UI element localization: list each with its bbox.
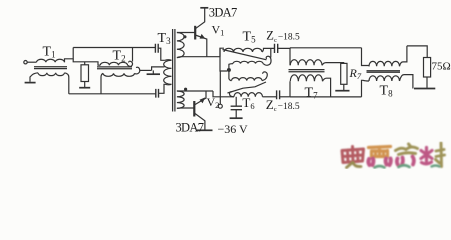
R1 bottom lead bbox=[84, 82, 86, 88]
wire C4 to T7 bottom bbox=[280, 96, 290, 98]
T8 secondary right wire bbox=[400, 75, 413, 89]
svg-text:3DA7: 3DA7 bbox=[176, 121, 204, 135]
ground lead at node bbox=[152, 70, 154, 73]
top rail left bbox=[73, 47, 155, 49]
V1 emitter bbox=[195, 35, 207, 57]
wire T2 sec right to node bbox=[140, 69, 152, 71]
wire T6 to C4 bbox=[263, 96, 277, 98]
row2 curl to top wire bbox=[270, 48, 272, 57]
wire T1 sec right down bbox=[65, 73, 69, 94]
T3 sec upper bottom wire bbox=[177, 56, 220, 59]
capacitor C3 plates bbox=[275, 44, 278, 53]
bottom rail right bbox=[290, 96, 362, 98]
wire C1 to T3 top bbox=[158, 48, 165, 60]
V2 emitter arrow bbox=[200, 97, 206, 103]
T3 primary winding bbox=[164, 60, 172, 84]
T3 secondary upper bbox=[177, 33, 184, 58]
T7 top-left vertical bbox=[289, 48, 291, 66]
capacitor C1 plates bbox=[155, 44, 158, 53]
T8 primary right wire bbox=[400, 46, 407, 66]
ground bar under T1 bbox=[25, 82, 36, 84]
row2 winding bbox=[229, 64, 233, 68]
phase dot lower bbox=[184, 88, 187, 91]
svg-text:−36 V: −36 V bbox=[218, 122, 249, 136]
T3 primary bottom lead bbox=[166, 83, 172, 86]
wire C2 to T3 bottom bbox=[159, 84, 166, 93]
T3 core bbox=[173, 29, 175, 112]
transformer T2 secondary bbox=[103, 73, 135, 76]
inductor T6 winding bbox=[234, 93, 262, 97]
V2 collector rail bar bbox=[197, 129, 213, 131]
row3 right curl bbox=[262, 72, 267, 81]
R1 top lead bbox=[84, 62, 86, 65]
top rail right bbox=[290, 47, 362, 49]
center vertical bbox=[220, 48, 227, 71]
V1 collector rail bar bbox=[200, 7, 208, 9]
T2 secondary right curl bbox=[135, 67, 140, 74]
T7 bottom right wire down bbox=[323, 78, 331, 97]
R7 bottom lead bbox=[343, 84, 345, 90]
wire input to T1 bbox=[28, 61, 37, 63]
wire T2 pri right up to rail bbox=[132, 48, 134, 62]
ground bar at node bbox=[147, 73, 160, 75]
watermark logo bbox=[342, 143, 445, 168]
T7 top right wire to R bbox=[322, 63, 344, 66]
wire T2 sec left down bbox=[101, 73, 103, 94]
load bottom lead bbox=[426, 77, 428, 88]
T6 left curl bbox=[230, 92, 235, 97]
T3 secondary lower bbox=[177, 91, 184, 108]
tap vertical to circle bbox=[219, 71, 221, 104]
capacitor C4 plates bbox=[277, 90, 280, 99]
shunt cap lower lead bbox=[235, 110, 237, 118]
open circle terminal bbox=[218, 104, 222, 108]
transformer T1 primary bbox=[37, 59, 65, 62]
T3 sec upper top wire to V1 base bbox=[177, 32, 195, 34]
wire C3 to T7 bbox=[278, 47, 290, 50]
shunt cap plates bbox=[231, 106, 242, 110]
T8 secondary left wire bbox=[362, 80, 370, 97]
transformer T1 secondary bbox=[38, 73, 64, 76]
T7 bottom-left vertical bbox=[289, 81, 291, 97]
bottom rail left bbox=[69, 93, 156, 95]
T8 core bbox=[367, 71, 401, 73]
resistor R1 bbox=[81, 65, 89, 82]
load resistor 75ohm bbox=[424, 58, 431, 78]
T7 core bbox=[289, 70, 325, 72]
ground bar under cap bbox=[230, 117, 243, 119]
input terminal bbox=[24, 61, 27, 64]
ground bar under R1 bbox=[79, 87, 90, 89]
wire V2 emitter node bbox=[213, 91, 234, 97]
inductor T5 winding bbox=[224, 48, 262, 52]
T7 bottom winding bbox=[290, 75, 322, 82]
wire T1 sec left to ground bbox=[30, 73, 38, 82]
V2 emitter up bbox=[194, 91, 206, 105]
T3 sec lower bottom wire to V2 base bbox=[177, 107, 194, 109]
ground bar under R7 bbox=[335, 90, 349, 92]
junction dot bbox=[227, 68, 231, 72]
T1 core bbox=[34, 67, 67, 69]
resistor R7 bbox=[341, 63, 347, 84]
ground bar under load bbox=[414, 88, 435, 90]
shunt cap lead bbox=[235, 97, 237, 106]
row2 right end bbox=[263, 56, 271, 65]
T2 primary right curl bbox=[128, 61, 133, 66]
T8 secondary winding bbox=[369, 76, 399, 81]
svg-text:75Ω: 75Ω bbox=[432, 60, 451, 72]
V1 base bar bbox=[194, 26, 196, 40]
T8 primary winding bbox=[369, 61, 399, 66]
wire V1 emitter node up bbox=[220, 48, 224, 57]
node tap wire to T3 bbox=[152, 67, 165, 71]
T7 top winding bbox=[290, 60, 322, 66]
wire node to R1 and T2 bbox=[73, 59, 100, 65]
capacitor C2 plates bbox=[156, 89, 159, 98]
T8 primary left wire bbox=[362, 48, 370, 66]
svg-text:3DA7: 3DA7 bbox=[209, 6, 237, 20]
T3 sec lower top wire bbox=[177, 90, 213, 92]
T2 core bbox=[97, 67, 132, 69]
T3 primary top lead bbox=[165, 59, 172, 62]
row2 arcs bbox=[233, 61, 263, 63]
V1 collector bbox=[195, 9, 205, 29]
diagonal cross lower bbox=[228, 82, 267, 93]
diagonal cross upper bbox=[223, 50, 267, 60]
V2 base bar bbox=[193, 101, 195, 117]
V2 collector down bbox=[194, 113, 205, 130]
load top wire bbox=[407, 46, 427, 58]
V1 emitter arrow bbox=[200, 34, 206, 39]
row3 arcs bbox=[232, 78, 262, 81]
phase dot upper bbox=[183, 35, 186, 38]
transformer T2 primary bbox=[100, 62, 127, 65]
wire T1 pri right up to rail bbox=[65, 48, 74, 63]
row3 winding left bbox=[229, 72, 232, 81]
wire T5 to C3 bbox=[262, 48, 274, 52]
